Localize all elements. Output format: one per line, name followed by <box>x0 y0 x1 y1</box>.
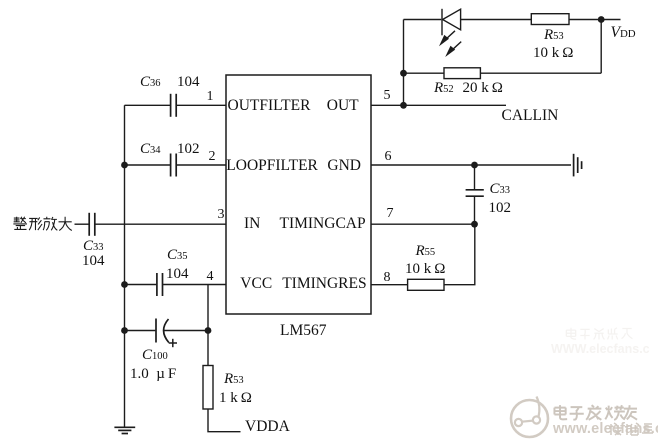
IC name LM567 <box>280 323 327 339</box>
value label 102 (C33 right) <box>489 201 512 216</box>
wire branch VCC row down to C100 row <box>207 285 209 331</box>
LED D1 triangle <box>443 9 461 30</box>
junction C33 top at GND row <box>471 162 478 169</box>
pin number 7 <box>387 207 394 221</box>
IC U1 LM567 body <box>226 75 371 314</box>
wire R53b bottom lead to VDDA <box>208 409 241 432</box>
value label 104 (C36) <box>177 75 200 90</box>
value label C34 <box>140 142 161 157</box>
junction at OUT pin 5 <box>400 102 407 109</box>
ground GND2 symbol (right facing) <box>574 154 582 177</box>
wire C34 to pin 2 <box>177 164 226 166</box>
value label 104 (C35) <box>166 267 189 282</box>
wire C33 bottom lead <box>474 197 476 224</box>
LED D1 emission arrow 2 <box>445 42 461 57</box>
wire pin 7 TIMINGCAP <box>371 223 475 225</box>
watermark logo elecfans <box>508 394 553 448</box>
value label C36 <box>140 75 161 90</box>
wire R53 to VDD node <box>569 19 621 21</box>
value label 20 k ohm (R52) <box>463 81 503 96</box>
wire pin 5 OUT to CALLIN <box>371 104 506 106</box>
wire pin 4 left segment <box>125 284 157 286</box>
LED D1 cathode bar <box>441 9 443 36</box>
wire pin 6 GND to ground <box>371 164 571 166</box>
watermark text line 2 overlay (Chinese weixiu) <box>608 422 654 437</box>
wire C35 to pin 4 VCC <box>163 284 226 286</box>
value label C33 (input) <box>83 239 104 254</box>
wire C100 row left segment <box>125 330 156 332</box>
capacitor C100 plus sign <box>169 339 177 347</box>
wire C33 to pin 3 IN <box>95 223 226 225</box>
watermark text line 1 (elecfans Chinese) <box>552 404 638 422</box>
capacitor C36 plates <box>171 94 177 117</box>
ground GND1 symbol <box>114 427 135 433</box>
net label VDD <box>611 25 636 41</box>
wire C36 to pin 1 <box>177 104 226 106</box>
IC pin label VCC <box>240 276 272 292</box>
wire R52 left lead <box>404 72 445 74</box>
wire VDD node down to R52 row <box>600 20 602 74</box>
wire LED to resistor R53 top <box>461 19 532 21</box>
value label 1.0 uF <box>130 367 176 382</box>
pin number 2 <box>209 150 216 164</box>
wire R52 right lead <box>480 72 601 74</box>
net label input (Chinese: shaping amplifier) <box>12 216 74 232</box>
wire C33 top lead <box>474 165 476 189</box>
junction VDDA branch at C100 row <box>205 327 212 334</box>
wire from input label to C33 <box>75 223 89 225</box>
watermark text line 2 (www.elecfans.com overlap) <box>553 422 658 437</box>
IC pin label TIMINGCAP <box>279 216 365 232</box>
wire C100 to VDDA branch <box>164 330 209 332</box>
junction VDD node <box>598 16 605 23</box>
watermark faint upper copy <box>551 327 658 355</box>
wire from pin 7 node down to R55 <box>444 224 475 285</box>
net label CALLIN <box>502 108 559 124</box>
wire pin 8 TIMINGRES to R55 <box>371 284 408 286</box>
capacitor C33 input plates <box>89 213 95 236</box>
junction left bus at C100 row <box>121 327 128 334</box>
value label 10 k ohm (R53) <box>533 46 573 61</box>
capacitor C100 curved plate <box>164 319 169 343</box>
resistor R53 (1 k) body <box>203 366 213 410</box>
IC pin label LOOPFILTER <box>226 158 318 174</box>
IC pin label OUTFILTER <box>228 98 311 114</box>
pin number 6 <box>385 150 392 164</box>
IC pin label OUT <box>327 98 359 114</box>
wire R53b top lead <box>207 331 209 366</box>
value label R55 <box>416 244 436 259</box>
capacitor C100 straight plate <box>155 319 157 343</box>
value label 1 k ohm <box>219 391 252 406</box>
resistor R55 body <box>408 279 444 290</box>
resistor R52 (20 k) body <box>444 68 480 79</box>
IC pin label GND <box>327 158 361 174</box>
pin number 3 <box>218 208 225 222</box>
IC pin label IN <box>244 216 260 232</box>
value label 104 (C33 input) <box>82 254 105 269</box>
value label 10 k ohm (R55) <box>405 262 445 277</box>
value label R52 <box>434 81 454 96</box>
junction C33 bottom at pin 7 <box>471 221 478 228</box>
pin number 1 <box>207 90 214 104</box>
pin number 8 <box>384 271 391 285</box>
wire branch from top rail down to OUT row <box>403 20 405 106</box>
resistor R53 (10 k) body <box>531 14 569 25</box>
capacitor C33 (102) plates <box>466 190 484 196</box>
value label C35 <box>167 248 188 263</box>
value label R53 bottom <box>224 372 244 387</box>
pin number 5 <box>384 89 391 103</box>
wire pin 2 left segment <box>125 164 171 166</box>
IC pin label TIMINGRES <box>282 276 366 292</box>
value label C33 right <box>490 182 511 197</box>
capacitor C34 plates <box>171 154 177 177</box>
value label C100 <box>142 348 168 363</box>
net label VDDA <box>245 419 290 435</box>
wire top rail from node A to LED <box>404 19 442 21</box>
LED D1 emission arrow 1 <box>439 31 455 46</box>
wire left bus vertical <box>124 105 126 427</box>
junction left bus at pin 2 row <box>121 162 128 169</box>
value label 102 (C34) <box>177 142 200 157</box>
junction left bus at VCC row <box>121 281 128 288</box>
wire pin 1 left segment <box>125 104 171 106</box>
capacitor C35 plates <box>157 273 163 296</box>
value label R53 top <box>544 28 564 43</box>
junction on left branch at R52 row <box>400 70 407 77</box>
pin number 4 <box>207 270 214 284</box>
